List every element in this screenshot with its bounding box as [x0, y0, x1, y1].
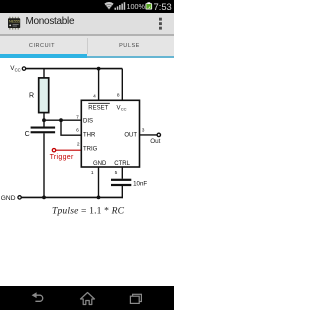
selected tab underline: [0, 54, 87, 59]
svg-text:C: C: [25, 131, 30, 138]
svg-text:8: 8: [117, 93, 120, 99]
junction dot pin1/ground: [97, 196, 101, 200]
trigger terminal: [52, 149, 55, 152]
svg-text:3: 3: [142, 127, 145, 133]
navigation bar: [0, 286, 174, 310]
svg-text:R: R: [29, 92, 34, 99]
circuit schematic svg: [0, 58, 174, 286]
node VCC label: [10, 65, 20, 73]
recent apps button icon: [128, 292, 144, 306]
VCC terminal: [22, 67, 25, 70]
IC 555 body: [81, 100, 139, 167]
svg-text:THR: THR: [83, 133, 96, 139]
junction dot C/ground: [42, 196, 46, 200]
svg-text:GND: GND: [1, 195, 16, 202]
svg-text:10nF: 10nF: [133, 180, 147, 187]
ground rail: [21, 196, 123, 198]
svg-text:5: 5: [115, 170, 118, 176]
wire trigger to TRIG pin2: [56, 149, 82, 151]
battery % text: [127, 2, 145, 11]
tab CIRCUIT: [0, 43, 86, 49]
wire to DIS pin7: [44, 119, 81, 121]
svg-text:1: 1: [91, 170, 94, 176]
svg-text:4: 4: [93, 93, 96, 99]
svg-text:Out: Out: [150, 138, 160, 145]
svg-text:RESET: RESET: [88, 105, 108, 111]
content: [0, 58, 174, 286]
pin label VCC inside: [117, 105, 127, 111]
svg-text:TRIG: TRIG: [83, 147, 98, 153]
wire C2 to ground rail: [121, 186, 123, 198]
svg-text:GND: GND: [93, 161, 107, 167]
svg-text:7: 7: [76, 114, 79, 120]
battery icon: [145, 2, 153, 10]
junction dot DIS/THR branch: [59, 118, 63, 122]
svg-text:CC: CC: [121, 107, 127, 112]
capacitor C bottom plate: [31, 131, 55, 133]
svg-text:CC: CC: [15, 68, 21, 73]
wire GND pin1: [98, 167, 100, 197]
Out terminal: [157, 133, 160, 136]
capacitor C top plate: [31, 127, 55, 129]
resistor R: [39, 78, 49, 113]
wire resistor to junction: [43, 113, 45, 127]
wire rail to resistor: [43, 69, 45, 78]
tab divider: [87, 38, 88, 54]
wire CTRL pin5: [121, 167, 123, 179]
unselected tab underline: [87, 56, 174, 59]
svg-text:Tpulse = 1.1 * RC: Tpulse = 1.1 * RC: [52, 205, 125, 216]
svg-text:6: 6: [76, 128, 79, 134]
signal bars icon: [114, 2, 126, 10]
tab PULSE: [86, 43, 173, 49]
junction dot top rail / pin4: [97, 67, 101, 71]
wire capacitor to ground rail: [43, 133, 45, 197]
clock text: [154, 1, 172, 12]
pin label RESET with overline: [88, 103, 110, 111]
junction dot R/C/DIS: [42, 118, 46, 122]
back button icon: [29, 290, 47, 306]
wire pin8 to rail: [121, 69, 123, 101]
action bar: [0, 13, 174, 34]
wire top rail: [26, 68, 123, 70]
app title: [26, 16, 75, 27]
wifi icon: [104, 1, 114, 10]
svg-text:2: 2: [77, 142, 80, 148]
home button icon: [79, 291, 96, 306]
status bar: [0, 0, 174, 13]
svg-text:NE555: NE555: [9, 19, 20, 23]
svg-text:OUT: OUT: [124, 133, 137, 139]
wire pin4 to rail: [98, 69, 100, 101]
GND terminal: [18, 196, 21, 199]
svg-text:CTRL: CTRL: [114, 161, 130, 167]
action bar bottom line: [0, 34, 174, 36]
capacitor C2 top plate: [111, 179, 131, 181]
capacitor C2 bottom plate: [111, 184, 131, 186]
wire OUT pin3 stub: [140, 134, 157, 136]
wire branch to THR pin6: [61, 120, 81, 135]
overflow menu icon: [158, 17, 164, 31]
tab bar: [0, 36, 174, 56]
svg-text:Trigger: Trigger: [50, 154, 74, 161]
app icon (555 chip): [7, 16, 22, 31]
svg-text:DIS: DIS: [83, 118, 93, 124]
